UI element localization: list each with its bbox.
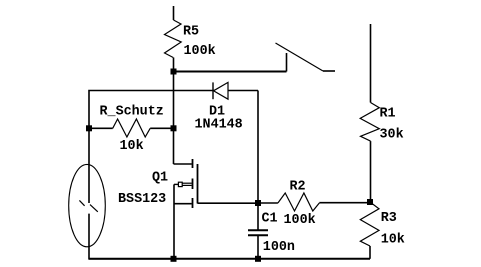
transistor Q1 source lead [174, 203, 192, 205]
svg-text:100n: 100n [263, 240, 295, 255]
svg-text:30k: 30k [380, 127, 404, 142]
wire switch stub [323, 70, 335, 72]
wire lamp bottom lead [89, 214, 174, 259]
wire D1 branch down [257, 91, 259, 204]
junction dot ground-rail [171, 256, 177, 262]
switch S1 post [286, 53, 288, 72]
node B junction dot [255, 200, 261, 206]
transistor Q1 channel bar [197, 164, 199, 204]
svg-text:100k: 100k [284, 213, 316, 228]
diode D1 cathode bar [212, 82, 214, 99]
switch S1 blade [276, 43, 324, 71]
transistor Q1 source tick [192, 198, 194, 208]
wire node A to switch [174, 71, 287, 73]
svg-text:R2: R2 [290, 179, 306, 194]
capacitor C1 top plate [248, 229, 268, 231]
svg-text:10k: 10k [381, 232, 405, 247]
transistor Q1 drain lead [174, 163, 192, 165]
wire gate lead [174, 183, 178, 185]
junction dot R_Schutz right [171, 125, 177, 131]
capacitor C1 bottom plate [248, 234, 268, 236]
svg-text:Q1: Q1 [152, 170, 168, 185]
wire rail node A to drain [173, 72, 175, 165]
svg-text:R3: R3 [381, 211, 397, 226]
svg-text:R5: R5 [183, 24, 199, 39]
svg-text:100k: 100k [184, 44, 216, 59]
diode D1 triangle [214, 82, 229, 99]
lamp blade lower [90, 205, 98, 212]
junction dot R_Schutz left [86, 125, 92, 131]
node C junction dot [367, 199, 373, 205]
transistor Q1 gate box [178, 182, 182, 186]
wire R5 bottom lead [173, 58, 175, 72]
capacitor C1 bottom lead [257, 236, 259, 259]
resistor R2 [258, 193, 370, 211]
resistor R1 [360, 103, 379, 142]
lamp blade upper [79, 200, 84, 205]
node A junction dot [171, 69, 177, 75]
svg-text:1N4148: 1N4148 [195, 118, 243, 133]
resistor R5 [165, 20, 182, 58]
transistor Q1 gate double line [182, 183, 192, 185]
svg-text:10k: 10k [120, 139, 144, 154]
wire top of lamp branch [89, 91, 258, 204]
wire R3 bottom lead [369, 246, 371, 259]
svg-text:BSS123: BSS123 [118, 192, 166, 207]
wire Q1 output to node B [198, 202, 259, 204]
resistor R_Schutz [89, 119, 174, 137]
transistor Q1 gate tick [192, 179, 194, 190]
transistor Q1 drain tick [192, 159, 194, 168]
svg-text:C1: C1 [262, 212, 278, 227]
wire R1 bottom lead [370, 141, 372, 202]
wire gate-source rail [173, 184, 175, 258]
wire ground bus [89, 258, 370, 260]
svg-text:R1: R1 [380, 106, 396, 121]
wire R1 top lead [370, 24, 372, 103]
wire R5 top lead [173, 6, 175, 20]
lamp LA1 ellipse [69, 164, 106, 246]
svg-text:R_Schutz: R_Schutz [100, 104, 164, 119]
junction dot ground-C1 [255, 256, 261, 262]
resistor R3 [360, 202, 379, 246]
capacitor C1 top lead [257, 203, 259, 230]
